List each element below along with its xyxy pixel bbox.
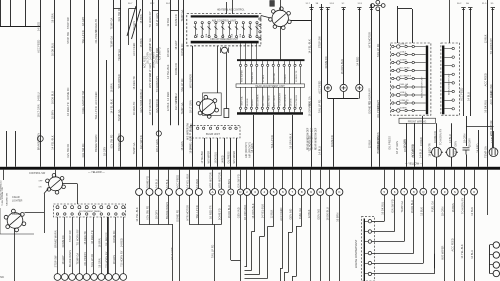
- bottom right contact 2: [493, 252, 499, 258]
- svg-text:C: C: [230, 190, 232, 194]
- svg-text:31-5: 31-5: [482, 3, 487, 5]
- svg-text:W/S WIPER: W/S WIPER: [241, 70, 243, 82]
- svg-text:12 BLK: 12 BLK: [470, 207, 474, 216]
- cluster pin lower wire 11: [294, 87, 296, 107]
- svg-text:14 BLU: 14 BLU: [155, 179, 159, 188]
- connector stub R5: [423, 170, 425, 189]
- strip contact lead 5: [365, 263, 368, 265]
- svg-text:IGN SW FD: IGN SW FD: [110, 135, 114, 149]
- svg-text:STOP SW: STOP SW: [66, 31, 70, 43]
- cluster pin lower wire 12: [300, 87, 302, 107]
- svg-text:W/S WIPER: W/S WIPER: [189, 74, 193, 88]
- strip contact lead 1: [365, 221, 368, 223]
- wire fuse-to-cluster stub: [251, 43, 253, 59]
- wire: [470, 8, 472, 116]
- svg-text:TAIL LP FD: TAIL LP FD: [270, 135, 274, 148]
- junction pin bottom 9: [115, 213, 117, 215]
- svg-text:10: 10: [319, 190, 323, 194]
- wire fuse-to-cluster stub: [256, 43, 258, 59]
- cluster pin top 9: [283, 64, 285, 66]
- svg-text:14 BLU: 14 BLU: [400, 44, 407, 46]
- svg-text:TEMP GA: TEMP GA: [117, 109, 121, 121]
- svg-text:14 RED: 14 RED: [222, 155, 224, 163]
- wiper switch mount rect: [203, 93, 222, 116]
- wire drop B3: [212, 195, 214, 225]
- cluster pin lower wire 10: [289, 87, 291, 107]
- gauge G1 lower lead: [327, 92, 329, 99]
- wire drop B main: [214, 225, 216, 281]
- svg-text:AIR (FRONT): AIR (FRONT): [248, 142, 252, 158]
- horn relay circle: [489, 148, 498, 157]
- connector stub R4: [413, 170, 415, 189]
- connector circle N5: [279, 189, 286, 196]
- svg-text:12 BLK: 12 BLK: [270, 210, 274, 219]
- connector stub N1: [246, 170, 248, 189]
- bottom left connector outline: [54, 204, 126, 217]
- lamp unit B contact wire 3: [444, 65, 452, 67]
- wire fuse-to-cluster stub: [245, 43, 247, 59]
- lamp unit B contact wire 5: [444, 82, 452, 84]
- connector stub P1: [139, 170, 141, 189]
- svg-text:16 ORN-BLK: 16 ORN-BLK: [251, 203, 255, 218]
- svg-text:TAIL LP FD: TAIL LP FD: [90, 254, 94, 267]
- ammeter M1: [430, 147, 443, 157]
- wire drop C3: [264, 196, 266, 237]
- svg-text:16 DK BLU: 16 DK BLU: [227, 205, 231, 218]
- lamp unit A outline: [391, 43, 431, 115]
- cluster pin top 11: [294, 64, 296, 66]
- ammeter M2: [445, 147, 458, 157]
- fuse block top bus bar: [191, 15, 259, 17]
- wire: [136, 0, 138, 167]
- fuse F5: [221, 22, 224, 38]
- splice mark: [357, 7, 361, 9]
- svg-text:FRONT HARNESS: FRONT HARNESS: [0, 180, 3, 200]
- wire staircase 5: [372, 263, 424, 265]
- cluster pin lower wire 6: [267, 87, 269, 107]
- junction pin bottom 4: [78, 213, 80, 215]
- bottom left bump 6: [91, 274, 98, 281]
- svg-text:R: R: [433, 190, 435, 194]
- cluster pin wire 1: [240, 61, 242, 64]
- splice mark: [309, 7, 313, 9]
- svg-text:DOME FD: DOME FD: [61, 235, 65, 247]
- svg-text:18 GRY: 18 GRY: [376, 100, 380, 109]
- svg-text:MC: MC: [0, 276, 4, 279]
- cluster pin top 5: [261, 64, 263, 66]
- wiper switch: [197, 95, 219, 118]
- svg-text:16 BRN: 16 BRN: [97, 238, 101, 247]
- cluster pin bottom 12: [299, 107, 301, 109]
- connector circle R10: [471, 188, 478, 195]
- svg-text:FUEL GA: FUEL GA: [298, 208, 302, 219]
- wire: [70, 0, 72, 167]
- svg-text:TEMP GA: TEMP GA: [110, 36, 114, 48]
- lamp unit B contact wire 4: [444, 74, 452, 76]
- junction pin wire 6: [93, 217, 95, 274]
- junction pin bottom 8: [107, 213, 109, 215]
- cluster pin wire 5: [262, 61, 264, 64]
- svg-text:16 ORN-BLK: 16 ORN-BLK: [400, 76, 412, 78]
- svg-text:HTR MOTOR: HTR MOTOR: [489, 120, 493, 136]
- junction pin bottom 1: [56, 213, 58, 215]
- svg-text:IGN SW FD: IGN SW FD: [391, 199, 395, 213]
- svg-text:16 BRN: 16 BRN: [227, 179, 231, 188]
- wire: [253, 115, 255, 167]
- svg-text:STOP SW: STOP SW: [81, 90, 85, 102]
- lamp unit B contact 1: [452, 47, 454, 49]
- svg-text:OIL PRESS: OIL PRESS: [83, 252, 87, 266]
- cluster pin bottom 9: [283, 107, 285, 109]
- wire: [436, 157, 438, 167]
- junction pin top 10: [122, 206, 125, 209]
- junction pin top 9: [114, 206, 117, 209]
- svg-text:HTR MOTOR: HTR MOTOR: [209, 172, 213, 188]
- lamp unit B contact wire 1: [444, 48, 452, 50]
- svg-text:14 YEL-BLK: 14 YEL-BLK: [185, 174, 189, 188]
- bottom left bump 9: [113, 274, 120, 281]
- cluster pin lower wire 2: [245, 87, 247, 107]
- svg-text:W/S WIPER: W/S WIPER: [258, 94, 260, 106]
- svg-text:16 RED-TR: 16 RED-TR: [428, 143, 432, 157]
- svg-text:14 RED: 14 RED: [476, 143, 480, 152]
- wire: [210, 138, 212, 167]
- svg-text:18 GRY: 18 GRY: [103, 146, 107, 155]
- cluster pin wire 3: [251, 61, 253, 64]
- strip contact 1: [368, 220, 371, 223]
- bottom left bump 8: [105, 274, 112, 281]
- connector stub L1: [212, 170, 214, 189]
- connector circle K1: [336, 189, 343, 196]
- connector stub N7: [301, 170, 303, 189]
- svg-text:FRONT WIRING: FRONT WIRING: [408, 120, 427, 123]
- lamp row A5: [392, 77, 426, 80]
- svg-text:12 BLK: 12 BLK: [484, 34, 488, 43]
- svg-text:ACC FEED: ACC FEED: [132, 43, 136, 56]
- svg-text:TAIL LP FD: TAIL LP FD: [180, 78, 184, 91]
- svg-text:TEMP GA: TEMP GA: [240, 96, 243, 106]
- cluster pin wire 12: [300, 61, 302, 64]
- svg-text:14 RED: 14 RED: [285, 74, 287, 82]
- bottom right contact 3: [493, 262, 499, 268]
- svg-text:TO HORN RY: TO HORN RY: [368, 88, 372, 104]
- svg-text:16 BRN: 16 BRN: [400, 108, 408, 110]
- svg-text:HTR MOTOR: HTR MOTOR: [218, 172, 222, 188]
- strip contact 2: [368, 230, 371, 233]
- connector stub R8: [454, 170, 456, 189]
- wire fuse box top feed 2: [232, 0, 234, 14]
- splice mark: [461, 7, 465, 9]
- cluster pin bottom 3: [250, 107, 252, 109]
- svg-text:FUEL GA: FUEL GA: [430, 201, 434, 212]
- strip contact 3: [368, 240, 371, 243]
- svg-text:18 LT GRN: 18 LT GRN: [395, 141, 399, 154]
- junction pin wire 2: [64, 217, 66, 274]
- svg-text:16 DK BLU: 16 DK BLU: [410, 200, 414, 213]
- wire left frame vertical 3: [25, 0, 27, 26]
- junction pin top 8: [107, 206, 110, 209]
- wire drop A4: [168, 196, 170, 225]
- connector stub L2: [221, 170, 223, 189]
- junction pin bottom 10: [122, 213, 124, 215]
- svg-text:14 RED: 14 RED: [37, 22, 41, 31]
- gauge G2 lower lead: [343, 92, 345, 99]
- svg-text:14 BLU: 14 BLU: [252, 99, 254, 107]
- bottom right contact 4: [493, 270, 499, 276]
- wire: [152, 0, 154, 125]
- svg-text:16 DK BLU: 16 DK BLU: [484, 100, 488, 113]
- junction pin top 4: [78, 206, 81, 209]
- wire drop D2: [292, 196, 294, 233]
- svg-text:STOP SW: STOP SW: [54, 255, 58, 267]
- junction pin top 6: [93, 206, 96, 209]
- cluster pin top 8: [278, 64, 280, 66]
- svg-text:ACC FEED: ACC FEED: [94, 91, 98, 104]
- cluster pin top 2: [245, 64, 247, 66]
- junction pin wire 9: [115, 217, 117, 274]
- svg-text:12 BLK: 12 BLK: [490, 134, 494, 143]
- svg-text:ACC FEED: ACC FEED: [400, 67, 411, 70]
- lamp unit B contact wire 6: [444, 91, 452, 93]
- wiper switch lower: [4, 209, 26, 232]
- bottom right contact lead 1: [490, 244, 494, 246]
- svg-text:31-9: 31-9: [358, 3, 363, 5]
- wire drop E2: [329, 196, 331, 281]
- wire: [178, 0, 180, 125]
- svg-text:LIGHTER: LIGHTER: [12, 199, 23, 202]
- connector stub R3: [404, 170, 406, 189]
- connector stub P5: [179, 170, 181, 189]
- wire: [451, 157, 453, 167]
- lamp unit B contact 4: [452, 73, 454, 75]
- svg-text:— YELLOW —: — YELLOW —: [88, 171, 105, 174]
- connector circle L4: [237, 189, 243, 195]
- svg-text:BULB UNIT: BULB UNIT: [206, 132, 220, 136]
- svg-text:TEMP GA: TEMP GA: [484, 146, 488, 158]
- wire diagonal feeder 1: [127, 6, 136, 36]
- wire staircase 6: [372, 273, 435, 275]
- svg-text:14 BLU: 14 BLU: [174, 93, 178, 102]
- strip contact lead 6: [365, 273, 368, 275]
- svg-text:IGN SW FD: IGN SW FD: [237, 174, 241, 188]
- bottom left bump 5: [83, 274, 90, 281]
- connector stub N8: [310, 170, 312, 189]
- fuse block right edge contacts: [259, 18, 261, 20]
- svg-text:IGN SW FD: IGN SW FD: [159, 47, 162, 60]
- cluster pin wire 8: [278, 61, 280, 64]
- connector stub R6: [434, 170, 436, 189]
- svg-text:12 BLK: 12 BLK: [307, 209, 311, 218]
- cluster pin lower wire 7: [273, 87, 275, 107]
- fuse F2: [201, 22, 204, 38]
- cluster pin wire 7: [273, 61, 275, 64]
- connector stub P7: [198, 170, 200, 189]
- cluster pin bottom 8: [278, 107, 280, 109]
- wire top right jumper: [398, 8, 412, 10]
- splice mark: [319, 7, 323, 9]
- wire: [217, 138, 219, 167]
- cluster pin bottom 5: [261, 107, 263, 109]
- svg-text:FUEL GA: FUEL GA: [308, 96, 312, 107]
- wire fuse box to ignition switch: [261, 16, 271, 19]
- wire left frame horizontal: [0, 26, 41, 28]
- wire: [236, 138, 238, 167]
- wire drop A3: [158, 196, 160, 225]
- svg-text:TAIL LP FD: TAIL LP FD: [211, 245, 215, 258]
- wire: [54, 0, 56, 167]
- wire drop B3: [240, 195, 242, 281]
- svg-text:FUEL GA: FUEL GA: [400, 83, 409, 86]
- wire diagonal feeder 2: [132, 9, 141, 39]
- fuse F6: [228, 22, 231, 38]
- instrument cluster mid strip: [236, 84, 305, 87]
- gauge G3: [356, 84, 363, 91]
- svg-text:TAIL LP FD: TAIL LP FD: [94, 106, 98, 119]
- svg-text:REAR WINDOW DEF: REAR WINDOW DEF: [311, 127, 314, 150]
- svg-text:TO HORN RY: TO HORN RY: [105, 251, 109, 267]
- wire drop B2: [230, 195, 232, 260]
- wire horn branch horizontal: [25, 212, 45, 214]
- junction pin bottom 2: [64, 213, 66, 215]
- svg-text:16 BRN: 16 BRN: [451, 203, 455, 212]
- wire right jumper to horn relay: [493, 131, 495, 148]
- svg-text:14 YEL-BLK: 14 YEL-BLK: [135, 207, 139, 221]
- capacitor C1 lead: [226, 53, 228, 109]
- svg-text:18 GRN: 18 GRN: [290, 98, 292, 106]
- wire ignition feed horizontal: [291, 20, 312, 22]
- svg-text:ENGINE COMPARTMENT: ENGINE COMPARTMENT: [355, 239, 358, 268]
- cluster pin wire 4: [256, 61, 258, 64]
- bottom left bump 10: [120, 274, 127, 281]
- svg-text:16 DK BLU: 16 DK BLU: [380, 202, 384, 215]
- svg-text:16 DK BLU: 16 DK BLU: [139, 89, 143, 102]
- wire: [327, 8, 329, 84]
- connector stub K1: [339, 170, 341, 189]
- wire staircase 2: [372, 231, 395, 233]
- wire bottom right feed: [487, 170, 489, 215]
- svg-text:TEMP GA: TEMP GA: [132, 142, 136, 154]
- bottom right contact lead 3: [490, 264, 494, 266]
- lamp unit B contact wire 7: [444, 100, 452, 102]
- cluster pin wire 6: [267, 61, 269, 64]
- bottom right contact lead 2: [490, 254, 494, 256]
- svg-text:IGN SW FD: IGN SW FD: [139, 135, 143, 149]
- wire: [192, 46, 194, 167]
- connector ring C: [156, 131, 161, 136]
- svg-text:TEMP GA: TEMP GA: [117, 49, 121, 61]
- cluster pin top 4: [256, 64, 258, 66]
- strip contact 4: [368, 251, 371, 254]
- lamp row A8: [392, 101, 426, 104]
- svg-text:16 BRN: 16 BRN: [139, 38, 143, 47]
- connector circle R2: [391, 188, 398, 195]
- wire: [15, 131, 17, 167]
- svg-text:IGN SW FD: IGN SW FD: [155, 99, 159, 113]
- svg-text:T: T: [463, 190, 465, 194]
- junction pin top 7: [100, 206, 103, 209]
- bottom right connector bracket: [489, 245, 491, 274]
- bottom left bump 1: [54, 274, 61, 281]
- svg-text:DIMMER: DIMMER: [12, 213, 22, 216]
- svg-text:18 LT GRN: 18 LT GRN: [263, 95, 265, 106]
- svg-text:TAIL LP FD: TAIL LP FD: [318, 100, 322, 113]
- splice mark: [468, 7, 472, 9]
- junction pin wire 7: [101, 217, 103, 274]
- svg-text:DOME FD: DOME FD: [180, 44, 184, 56]
- cluster pin bottom 1: [239, 107, 241, 109]
- svg-text:K: K: [338, 190, 340, 194]
- wire: [466, 116, 468, 146]
- gauge G1: [324, 84, 331, 91]
- connector stub N9: [320, 170, 322, 189]
- svg-text:16 RED-TR: 16 RED-TR: [411, 144, 415, 158]
- svg-text:16 DK BLU: 16 DK BLU: [216, 152, 218, 164]
- junction pin wire 10: [123, 217, 125, 274]
- svg-text:16 ORN-BLK: 16 ORN-BLK: [243, 204, 247, 219]
- svg-text:18 GRN: 18 GRN: [51, 13, 55, 22]
- connector circle R1: [381, 188, 388, 195]
- wire: [406, 123, 408, 167]
- lamp unit B contact 7: [452, 99, 454, 101]
- wire: [224, 138, 226, 167]
- connector circle R7: [441, 188, 448, 195]
- svg-text:TAIL LP FD: TAIL LP FD: [81, 30, 85, 43]
- svg-text:OIL PRESS: OIL PRESS: [105, 232, 109, 246]
- svg-text:TEMP GA: TEMP GA: [76, 253, 80, 265]
- connector circle R4: [410, 188, 417, 195]
- svg-text:TAIL LP FD: TAIL LP FD: [376, 44, 380, 57]
- wire staircase 4: [372, 253, 414, 255]
- svg-text:14 YEL-BLK: 14 YEL-BLK: [189, 136, 193, 150]
- cluster pin wire 9: [284, 61, 286, 64]
- connector circle N4: [270, 189, 277, 196]
- svg-text:16 RED-TR: 16 RED-TR: [94, 19, 98, 33]
- connector stub N6: [292, 170, 294, 189]
- svg-text:HAZARD SW: HAZARD SW: [6, 192, 9, 206]
- wire staircase 3: [372, 241, 405, 243]
- connector circle R8: [451, 188, 458, 195]
- svg-text:ACC FEED: ACC FEED: [484, 73, 488, 86]
- connector stub N5: [282, 170, 284, 189]
- svg-text:16 BRN: 16 BRN: [400, 60, 408, 62]
- svg-text:14 BLU: 14 BLU: [470, 250, 474, 259]
- svg-text:12 BLK: 12 BLK: [368, 140, 372, 149]
- svg-text:ANNUNCIATOR UNIT: ANNUNCIATOR UNIT: [421, 76, 424, 98]
- wire: [463, 8, 465, 116]
- svg-text:14 YEL-BLK: 14 YEL-BLK: [460, 244, 464, 258]
- wire drop E3: [339, 195, 341, 281]
- svg-text:18 GRY: 18 GRY: [468, 138, 472, 147]
- junction pin wire 8: [108, 217, 110, 274]
- junction pin top 3: [71, 206, 74, 209]
- wire: [292, 115, 294, 167]
- cluster pin lower wire 1: [240, 87, 242, 107]
- svg-text:TO HORN RY: TO HORN RY: [460, 198, 464, 214]
- wire: [487, 0, 489, 167]
- svg-text:REAR WINDOW DEF: REAR WINDOW DEF: [307, 127, 310, 150]
- connector stub L3: [230, 170, 232, 189]
- svg-text:CIRCUIT BREAKER UNIT: CIRCUIT BREAKER UNIT: [210, 38, 239, 41]
- junction pin top 5: [85, 206, 88, 209]
- wire drop A main: [172, 225, 174, 281]
- wire ignition switch drop: [280, 27, 282, 60]
- cluster pin lower wire 4: [256, 87, 258, 107]
- wire pair bracket: [152, 10, 159, 12]
- svg-text:REAR WINDOW DEF: REAR WINDOW DEF: [315, 127, 318, 150]
- svg-text:DOME FD: DOME FD: [146, 176, 150, 188]
- svg-text:16 DK BLU: 16 DK BLU: [326, 207, 330, 220]
- svg-text:GEN IND: GEN IND: [237, 207, 241, 218]
